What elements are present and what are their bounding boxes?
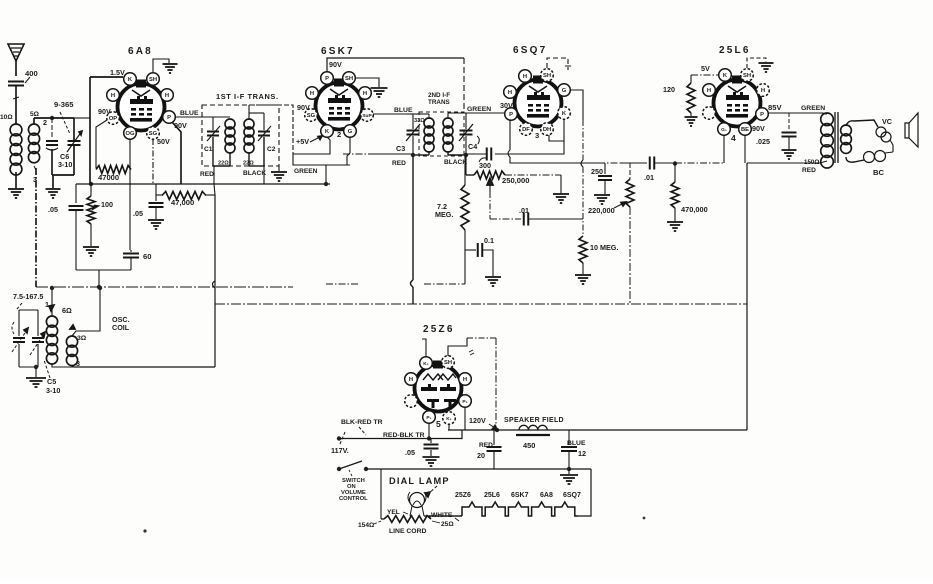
- pin K (6SQ7): [558, 107, 571, 120]
- wire K lead down (6SQ7): [582, 120, 584, 160]
- svg-text:12: 12: [578, 449, 586, 458]
- resistor 47,000 (screen): [155, 184, 157, 195]
- svg-text:H: H: [523, 74, 527, 80]
- svg-text:BE: BE: [741, 127, 749, 133]
- pin P top (6SK7): [321, 72, 334, 85]
- line cord resistor: [380, 469, 382, 519]
- resistor 10 MEG (diode load): [579, 236, 587, 263]
- svg-text:.05: .05: [405, 448, 415, 457]
- svg-text:C3: C3: [396, 144, 405, 153]
- pin SH (6SK7): [343, 72, 356, 85]
- svg-text:10 MEG.: 10 MEG.: [590, 243, 618, 252]
- svg-text:10Ω: 10Ω: [0, 114, 13, 121]
- svg-text:H: H: [310, 91, 314, 97]
- svg-text:1ST I-F TRANS.: 1ST I-F TRANS.: [216, 92, 279, 101]
- svg-text:85V: 85V: [768, 103, 782, 112]
- ground (0.1 cap): [485, 276, 501, 278]
- antenna: [8, 44, 24, 61]
- 2nd IF primary coil: [424, 118, 434, 128]
- svg-text:47000: 47000: [98, 173, 119, 182]
- wire K2 to rail: [448, 424, 450, 430]
- pin P1 (25Z6): [423, 411, 436, 424]
- pin H right (6SK7): [359, 87, 372, 100]
- svg-text:H: H: [111, 93, 115, 99]
- capacitor .05 (AVC filter): [75, 184, 77, 203]
- svg-text:6SQ7: 6SQ7: [563, 492, 581, 499]
- svg-text:SH: SH: [149, 77, 157, 83]
- svg-text:3Ω: 3Ω: [77, 335, 87, 342]
- pin G1 (25L6): [718, 123, 731, 136]
- speaker field coil 450: [519, 425, 547, 430]
- 2nd IF secondary coil: [443, 118, 453, 128]
- svg-text:6A8: 6A8: [128, 46, 153, 57]
- svg-text:SG: SG: [307, 113, 316, 119]
- resistor 47000 (osc grid): [96, 166, 131, 174]
- svg-text:SuP: SuP: [362, 113, 372, 119]
- svg-text:YEL: YEL: [387, 509, 400, 516]
- svg-text:300: 300: [479, 161, 491, 170]
- wiper arrow (volume): [489, 181, 491, 192]
- svg-text:CONTROL: CONTROL: [339, 496, 368, 502]
- wire K1 to B+ bus: [422, 339, 426, 357]
- capacitor C2 (1st IF secondary trimmer): [263, 113, 265, 130]
- svg-text:OP: OP: [109, 116, 118, 122]
- ground (10 MEG): [575, 274, 591, 276]
- svg-text:.01: .01: [644, 173, 654, 182]
- node tuning junction: [50, 116, 54, 120]
- svg-text:25L6: 25L6: [719, 45, 751, 56]
- pin P (6A8): [163, 111, 176, 124]
- heater string (5 heaters): [462, 502, 578, 516]
- ground bracket (6SK7 shell): [356, 78, 379, 87]
- wire coupling to 25L6 grid: [675, 162, 724, 164]
- svg-text:+5V: +5V: [296, 137, 309, 146]
- wire B+ vertical right: [746, 163, 748, 430]
- pin H right (6A8): [161, 89, 174, 102]
- svg-text:2: 2: [43, 118, 47, 127]
- svg-text:H: H: [363, 91, 367, 97]
- pin P2 (25Z6): [459, 395, 472, 408]
- wire OP to 47000: [96, 120, 107, 168]
- capacitor C3 (2nd IF primary trimmer): [407, 113, 413, 115]
- potentiometer 250,000 (volume): [465, 155, 467, 175]
- svg-text:DH: DH: [543, 127, 551, 133]
- svg-text:P₁: P₁: [426, 415, 431, 421]
- svg-text:6A8: 6A8: [540, 492, 553, 499]
- wire .05 to osc grid node: [76, 269, 131, 271]
- svg-text:BLUE: BLUE: [394, 107, 413, 114]
- pin H left (6SQ7): [504, 86, 517, 99]
- wire heater loop right: [578, 469, 591, 516]
- svg-text:C2: C2: [267, 146, 276, 153]
- resistor 100 (cathode): [87, 196, 95, 224]
- svg-text:H: H: [707, 88, 711, 94]
- pin H left (25L6): [703, 84, 716, 97]
- svg-text:3-10: 3-10: [58, 160, 72, 169]
- svg-text:120: 120: [663, 85, 675, 94]
- svg-text:GREEN: GREEN: [294, 168, 318, 175]
- svg-text:5: 5: [436, 419, 441, 429]
- pin unlabeled (25Z6): [405, 395, 418, 408]
- capacitor .01 (AF coupling from wiper): [490, 218, 521, 220]
- tube 25Z6 internals: [423, 374, 443, 380]
- svg-text:G: G: [348, 129, 353, 135]
- svg-text:90V: 90V: [98, 107, 111, 116]
- wire secondary top to voice coil: [846, 120, 878, 127]
- svg-text:2ND I-F: 2ND I-F: [428, 92, 450, 99]
- svg-text:SPEAKER FIELD: SPEAKER FIELD: [504, 417, 564, 424]
- ground (line filter): [423, 456, 440, 458]
- resistor 7.2 MEG (AVC): [461, 185, 469, 230]
- pin K (25L6): [719, 69, 732, 82]
- shield ground bracket (25L6): [747, 58, 766, 68]
- pin K1 (25Z6): [420, 357, 433, 370]
- wire P1 down to line: [428, 423, 430, 438]
- output transformer secondary: [841, 125, 852, 136]
- wire C3 down to AVC bus: [412, 156, 414, 280]
- svg-text:6SK7: 6SK7: [511, 492, 529, 499]
- output transformer core: [834, 112, 836, 163]
- svg-text:30V: 30V: [500, 101, 513, 110]
- antenna coil secondary: [28, 124, 39, 135]
- svg-text:0.1: 0.1: [484, 236, 494, 245]
- svg-text:154Ω: 154Ω: [358, 522, 375, 529]
- pin P (6SQ7): [505, 108, 518, 121]
- wire BE down (B+ return): [744, 135, 746, 163]
- svg-text:BC: BC: [873, 168, 884, 177]
- svg-text:1.5V: 1.5V: [110, 68, 125, 77]
- wire osc bottom to B- return: [74, 366, 215, 368]
- svg-text:OG: OG: [125, 131, 135, 137]
- svg-text:GREEN: GREEN: [467, 106, 491, 113]
- svg-text:400: 400: [25, 69, 38, 78]
- svg-text:.01: .01: [519, 206, 529, 215]
- svg-text:22Ω: 22Ω: [218, 161, 229, 167]
- pin K2 (25Z6): [443, 412, 456, 425]
- pin H left (25Z6): [405, 373, 418, 386]
- resistor 470,000 (grid leak 25L6): [674, 163, 676, 182]
- 1st IF primary coil: [225, 119, 235, 129]
- svg-text:220,000: 220,000: [588, 206, 615, 215]
- pin H right (25L6): [757, 84, 770, 97]
- pin H left (6SK7): [306, 87, 319, 100]
- svg-text:.05: .05: [48, 205, 58, 214]
- resistor 120 (heater shunt): [690, 75, 692, 83]
- capacitor C1 (1st IF primary trimmer): [212, 117, 214, 130]
- 1st IF secondary coil: [244, 119, 254, 129]
- wire grid/tuning to tube: [74, 117, 90, 119]
- tube 6SQ7 internals: [529, 86, 547, 92]
- pin OP (6A8): [107, 112, 120, 125]
- svg-text:1: 1: [45, 300, 49, 309]
- svg-text:25Ω: 25Ω: [441, 521, 454, 528]
- capacitor C4 (2nd IF secondary trimmer): [448, 112, 466, 114]
- pin P (25L6): [756, 108, 769, 121]
- svg-text:H: H: [165, 93, 169, 99]
- wire 117V top: [339, 438, 429, 440]
- svg-text:3: 3: [535, 131, 539, 140]
- wire AVC bus: [36, 286, 293, 288]
- svg-text:47,000: 47,000: [171, 198, 194, 207]
- capacitor 400 (antenna series): [8, 81, 24, 83]
- svg-text:TRANS: TRANS: [428, 99, 450, 106]
- svg-text:H: H: [409, 377, 413, 383]
- wire 6A8 plate feed from B+ bus: [172, 122, 181, 184]
- wire rectifier output dash to 120V: [495, 338, 497, 429]
- node osc cap bottom: [34, 365, 38, 369]
- pin SG left (6SK7): [305, 109, 318, 122]
- svg-text:6Ω: 6Ω: [62, 306, 72, 315]
- wire secondary top to 6SK7 grid: [249, 105, 293, 154]
- tube 6SK7 internals: [330, 89, 348, 95]
- wire primary bottom to B+: [747, 161, 827, 163]
- svg-text:470,000: 470,000: [681, 205, 708, 214]
- wire P2 to 120V rail: [464, 407, 466, 430]
- svg-text:120V: 120V: [469, 416, 486, 425]
- svg-text:SH: SH: [444, 360, 452, 366]
- svg-text:250: 250: [591, 167, 603, 176]
- wire OG lead down: [129, 139, 131, 250]
- svg-text:H: H: [463, 377, 467, 383]
- wire K to 120 resistor: [691, 74, 719, 76]
- ground (antenna coil): [15, 172, 17, 188]
- antenna coil primary: [10, 124, 22, 136]
- svg-text:BLK-RED TR: BLK-RED TR: [341, 419, 383, 426]
- svg-text:100: 100: [101, 200, 113, 209]
- ground (1st IF): [278, 166, 280, 171]
- wire 6SK7 plate B+ to 2nd IF: [327, 58, 464, 71]
- svg-text:K₁: K₁: [446, 416, 451, 422]
- node 470k junction: [673, 161, 677, 165]
- ground (120): [690, 113, 692, 116]
- pin G (6SQ7): [558, 84, 571, 97]
- svg-text:250,000: 250,000: [502, 176, 529, 185]
- svg-text:9-365: 9-365: [54, 100, 74, 109]
- svg-text:P: P: [325, 76, 329, 82]
- svg-text:G: G: [562, 88, 567, 94]
- stray scan mark: [643, 517, 646, 520]
- pin H left (6A8): [107, 89, 120, 102]
- stray scan mark: [143, 529, 146, 532]
- pin OG (6A8): [124, 127, 137, 140]
- wire plate to output transformer: [768, 112, 822, 114]
- svg-text:7.5-167.5: 7.5-167.5: [13, 292, 43, 301]
- wire SUP to 2nd IF BLUE: [373, 113, 407, 115]
- svg-text:450: 450: [523, 441, 535, 450]
- svg-text:2: 2: [337, 130, 341, 139]
- ground (osc): [35, 367, 37, 377]
- wire 6SQ7 plate rail: [509, 120, 511, 150]
- switch on volume control: [339, 461, 362, 469]
- svg-text:50V: 50V: [157, 137, 170, 146]
- pin SH (6A8): [147, 73, 160, 86]
- svg-text:90V: 90V: [752, 124, 765, 133]
- svg-text:6SQ7: 6SQ7: [513, 45, 547, 56]
- svg-text:H: H: [761, 88, 765, 94]
- wire SG lead down: [152, 139, 154, 184]
- svg-text:117V.: 117V.: [331, 446, 349, 455]
- wire pot right to ground: [505, 174, 561, 176]
- svg-text:25Z6: 25Z6: [423, 324, 455, 335]
- tube 6A8 internals: [132, 90, 150, 96]
- svg-text:.025: .025: [756, 137, 770, 146]
- svg-text:BLACK: BLACK: [243, 170, 266, 177]
- shield bracket (6SQ7): [547, 58, 568, 70]
- svg-text:P₂: P₂: [462, 399, 467, 405]
- line plug terminals: [337, 436, 341, 440]
- wire G to grid network: [570, 90, 583, 120]
- ground (470,000): [667, 221, 683, 223]
- svg-text:3-10: 3-10: [46, 386, 60, 395]
- svg-text:6SK7: 6SK7: [321, 46, 355, 57]
- node C4 bottom: [464, 153, 468, 157]
- pin G (6SK7): [344, 125, 357, 138]
- svg-text:BLUE: BLUE: [180, 110, 199, 117]
- svg-text:90V: 90V: [329, 60, 342, 69]
- capacitor .05 (screen bypass): [155, 195, 157, 201]
- output transformer primary: [821, 113, 834, 126]
- capacitor 60 (osc grid): [130, 250, 132, 252]
- svg-text:COIL: COIL: [112, 323, 130, 332]
- ground (screen bypass): [148, 219, 164, 221]
- node C3 bottom: [411, 153, 415, 157]
- capacitor .01 (AF coupling): [649, 157, 651, 170]
- wire screen bus: [76, 183, 330, 185]
- pin K (6A8): [124, 73, 137, 86]
- svg-text:C1: C1: [204, 146, 213, 153]
- ground bracket (6A8 shell): [153, 59, 169, 72]
- node 120V junction: [495, 428, 499, 432]
- speaker cone: [905, 123, 909, 138]
- ground (.025): [782, 149, 797, 151]
- svg-text:P: P: [509, 112, 513, 118]
- svg-text:K₁: K₁: [423, 361, 428, 367]
- svg-text:90V: 90V: [297, 103, 310, 112]
- svg-text:BLUE: BLUE: [567, 440, 586, 447]
- pin H right (25Z6): [459, 373, 472, 386]
- svg-text:5V: 5V: [701, 64, 710, 73]
- resistor 220,000 (plate load): [629, 163, 631, 179]
- svg-text:22Ω: 22Ω: [243, 161, 254, 167]
- svg-text:P: P: [167, 115, 171, 121]
- svg-text:LINE CORD: LINE CORD: [389, 528, 426, 535]
- svg-text:VC: VC: [882, 117, 892, 126]
- svg-text:20: 20: [477, 451, 485, 460]
- svg-text:C4: C4: [468, 142, 477, 151]
- node bias junction: [89, 182, 93, 186]
- capacitor 300 (IF bypass): [486, 148, 488, 161]
- wire GREEN to 6SQ7: [466, 112, 504, 114]
- ground (filter): [568, 469, 570, 474]
- svg-text:P: P: [760, 112, 764, 118]
- shield bracket (25Z6): [448, 338, 467, 356]
- pin SH (25L6): [741, 69, 754, 82]
- svg-text:RED: RED: [200, 171, 214, 178]
- svg-text:RED: RED: [392, 160, 406, 167]
- wire RED 1st IF down: [214, 184, 215, 195]
- svg-text:4: 4: [731, 133, 736, 143]
- svg-text:.05: .05: [133, 209, 143, 218]
- svg-text:RED: RED: [802, 167, 816, 174]
- pin H top (6SQ7): [519, 70, 532, 83]
- wire 220k to B- bus: [629, 207, 631, 303]
- wire 117V bottom rail: [366, 468, 591, 470]
- trimmer capacitor C6 3-10: [51, 118, 53, 138]
- svg-text:25Z6: 25Z6: [455, 492, 471, 499]
- pin SUP (6SK7): [361, 109, 374, 122]
- svg-text:BLACK: BLACK: [444, 159, 467, 166]
- pin K (6SK7): [321, 125, 334, 138]
- svg-text:MEG.: MEG.: [435, 210, 453, 219]
- ground (100 ohm): [83, 246, 99, 248]
- ground (tuning): [52, 175, 54, 188]
- wire to osc tap: [98, 270, 100, 287]
- ground (volume pot): [553, 193, 569, 195]
- pin DH (6SQ7): [541, 123, 554, 136]
- wire tuning bottom: [52, 174, 74, 176]
- wire K return dash: [343, 153, 368, 155]
- svg-text:DIAL LAMP: DIAL LAMP: [389, 476, 450, 486]
- svg-text:5Ω: 5Ω: [30, 111, 40, 118]
- pin DF (6SQ7): [520, 123, 533, 136]
- wire K to bias line: [90, 76, 123, 78]
- svg-text:H: H: [508, 90, 512, 96]
- svg-text:C5: C5: [47, 377, 56, 386]
- svg-text:DF: DF: [522, 127, 530, 133]
- svg-text:25L6: 25L6: [484, 492, 500, 499]
- ground (250 cap): [594, 194, 610, 196]
- wire cathode network (6SK7): [293, 137, 330, 154]
- wire AVC to bus: [464, 250, 466, 284]
- svg-text:G₁: G₁: [721, 127, 727, 133]
- pin unlabeled (25L6): [703, 107, 716, 120]
- wire 120V rail: [448, 429, 747, 431]
- pin SH (6SQ7): [541, 69, 554, 82]
- svg-text:60: 60: [143, 252, 151, 261]
- svg-text:GREEN: GREEN: [801, 105, 825, 112]
- variable capacitor osc (box): [19, 309, 38, 311]
- pin BE (25L6): [739, 123, 752, 136]
- wire B- bus: [215, 303, 747, 305]
- pin SH (25Z6): [442, 356, 455, 369]
- wire B- return vertical: [214, 195, 216, 367]
- svg-text:SH: SH: [743, 73, 751, 79]
- pin SG (6A8): [147, 127, 160, 140]
- wire diode detector: [549, 119, 564, 141]
- capacitor 250 (plate bypass): [604, 163, 606, 174]
- wire BLUE plate lead: [175, 116, 213, 118]
- svg-text:SH: SH: [345, 76, 353, 82]
- svg-text:SH: SH: [543, 73, 551, 79]
- tube 25L6 internals: [728, 86, 746, 92]
